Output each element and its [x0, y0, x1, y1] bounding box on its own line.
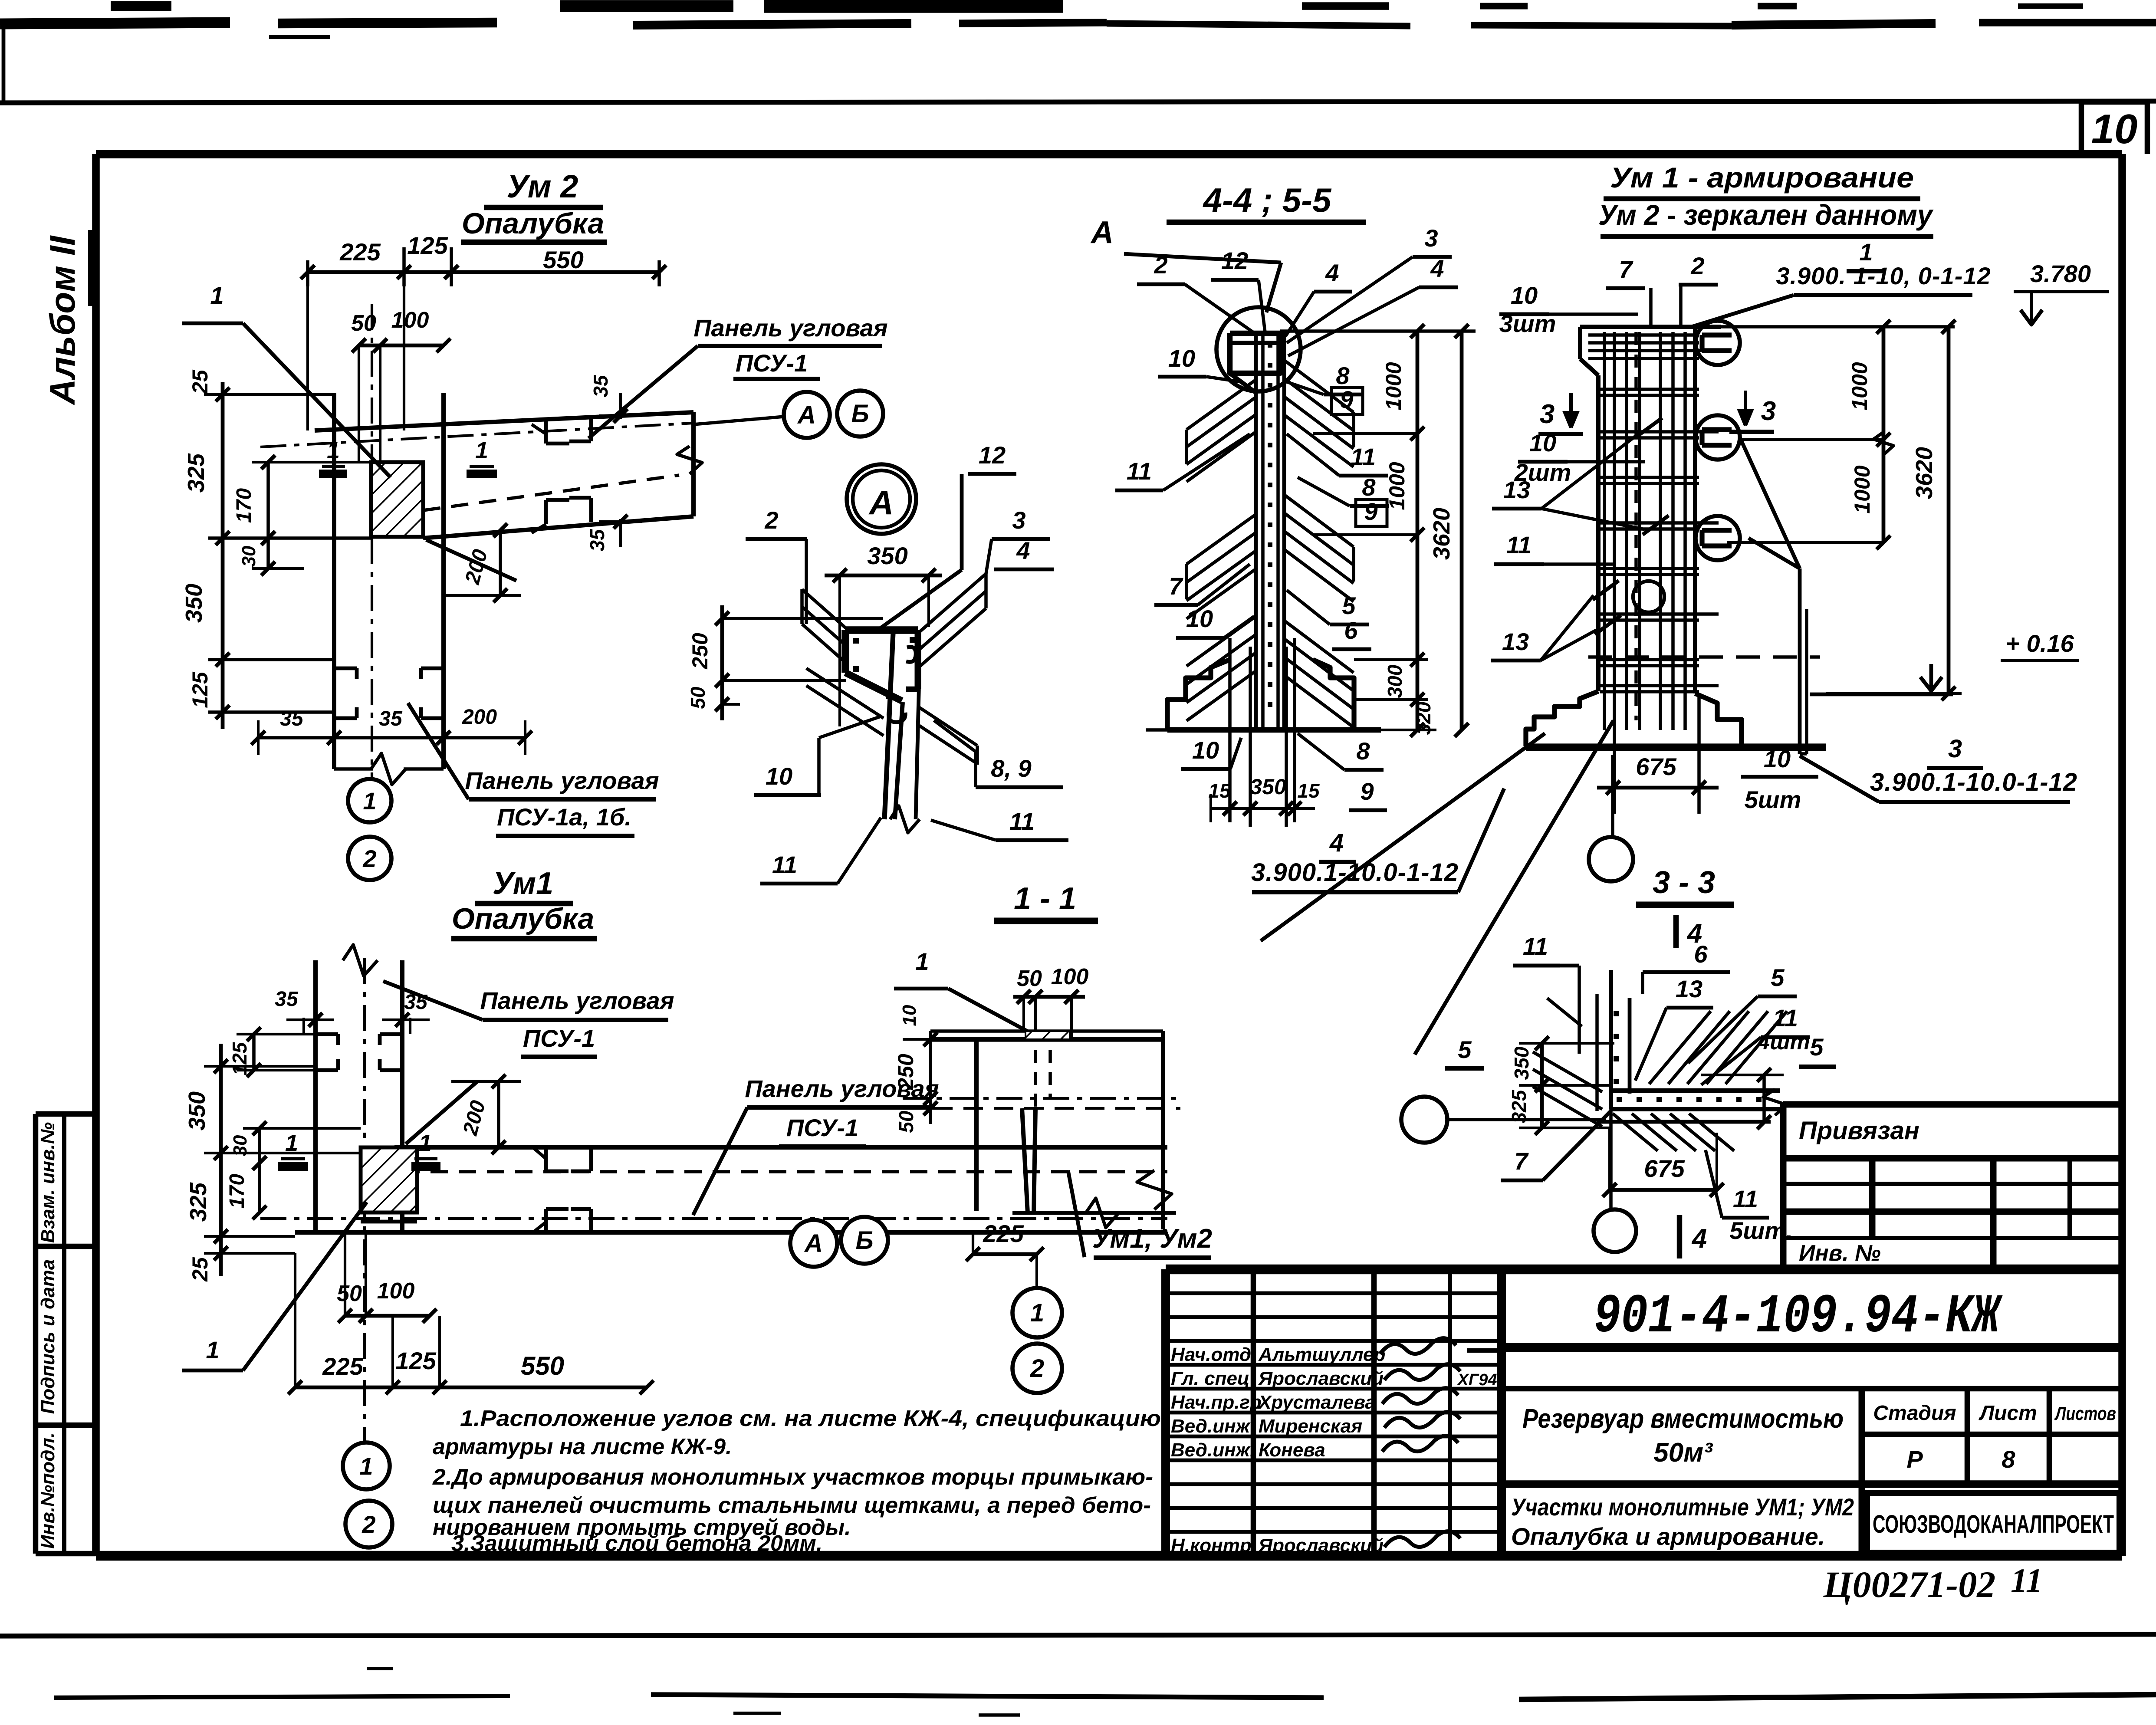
svg-text:Взам. инв.№: Взам. инв.№	[37, 1122, 59, 1243]
svg-text:Стадия: Стадия	[1873, 1402, 1956, 1425]
svg-text:11: 11	[2011, 1561, 2043, 1599]
svg-text:2: 2	[1690, 252, 1704, 279]
svg-text:550: 550	[543, 246, 583, 273]
svg-text:1: 1	[1030, 1299, 1044, 1327]
svg-text:901-4-109.94-КЖ: 901-4-109.94-КЖ	[1594, 1286, 2003, 1348]
svg-text:5: 5	[1458, 1036, 1472, 1063]
svg-text:А: А	[1090, 215, 1114, 250]
svg-text:50м³: 50м³	[1653, 1438, 1713, 1468]
svg-text:1.Расположение углов см. на: 1.Расположение углов см. на листе КЖ-4, …	[460, 1406, 1161, 1431]
svg-text:10: 10	[1511, 282, 1538, 309]
svg-text:Ярославский: Ярославский	[1258, 1535, 1384, 1556]
svg-text:50: 50	[687, 687, 709, 709]
svg-text:3620: 3620	[1911, 447, 1937, 499]
svg-text:1: 1	[363, 787, 376, 815]
svg-text:2: 2	[362, 1511, 375, 1538]
svg-text:50: 50	[351, 311, 376, 336]
svg-text:125: 125	[407, 232, 448, 259]
svg-text:10: 10	[1529, 429, 1556, 457]
svg-text:1: 1	[419, 1130, 432, 1156]
svg-text:3шт: 3шт	[1499, 310, 1556, 337]
svg-text:11: 11	[1523, 933, 1548, 960]
svg-text:ПСУ-1: ПСУ-1	[736, 349, 808, 377]
svg-text:Нач.пр.гр: Нач.пр.гр	[1171, 1392, 1262, 1413]
svg-text:Ум 2 - зеркален данному: Ум 2 - зеркален данному	[1598, 199, 1934, 231]
svg-text:50: 50	[895, 1111, 917, 1133]
svg-text:1000: 1000	[1381, 362, 1406, 410]
svg-text:Опалубка: Опалубка	[452, 902, 594, 935]
svg-text:7: 7	[1619, 256, 1633, 283]
svg-text:5шт: 5шт	[1745, 786, 1801, 813]
svg-text:250: 250	[688, 633, 712, 670]
svg-text:13: 13	[1676, 975, 1702, 1002]
svg-text:4: 4	[1325, 259, 1339, 286]
svg-text:2: 2	[764, 506, 778, 534]
svg-text:12: 12	[1221, 247, 1248, 274]
svg-text:13: 13	[1502, 628, 1529, 655]
svg-text:1: 1	[210, 282, 223, 309]
svg-text:Ум1: Ум1	[493, 866, 553, 901]
svg-text:35: 35	[275, 988, 299, 1011]
svg-text:3: 3	[1540, 399, 1555, 429]
svg-text:Ц00271-02: Ц00271-02	[1823, 1564, 1996, 1605]
svg-text:10: 10	[2091, 106, 2138, 152]
svg-text:1: 1	[206, 1336, 219, 1364]
svg-text:Панель угловая: Панель угловая	[693, 314, 887, 342]
svg-text:35: 35	[589, 375, 612, 398]
svg-text:Инв. №: Инв. №	[1799, 1241, 1881, 1266]
svg-text:2: 2	[1154, 251, 1167, 279]
svg-text:4-4 ; 5-5: 4-4 ; 5-5	[1203, 181, 1332, 219]
svg-text:5шт.: 5шт.	[1729, 1217, 1793, 1244]
svg-text:325: 325	[185, 1182, 211, 1222]
svg-text:50: 50	[337, 1281, 362, 1306]
svg-text:11: 11	[1127, 457, 1152, 485]
svg-text:225: 225	[339, 238, 381, 266]
svg-text:А: А	[804, 1229, 823, 1258]
svg-text:8, 9: 8, 9	[991, 755, 1031, 782]
svg-text:Ум1, Ум2: Ум1, Ум2	[1092, 1224, 1212, 1254]
svg-text:5: 5	[1771, 964, 1785, 991]
svg-text:Миренская: Миренская	[1259, 1416, 1362, 1437]
svg-text:10: 10	[899, 1005, 920, 1026]
svg-text:Альтшуллер: Альтшуллер	[1258, 1344, 1385, 1365]
svg-text:2: 2	[1030, 1354, 1044, 1383]
svg-text:3: 3	[1948, 735, 1962, 763]
svg-text:125: 125	[395, 1347, 436, 1374]
svg-text:8: 8	[1362, 473, 1376, 501]
svg-text:1: 1	[327, 437, 340, 463]
svg-text:3 - 3: 3 - 3	[1653, 865, 1715, 900]
svg-text:Н.контр.: Н.контр.	[1171, 1535, 1257, 1556]
svg-text:11: 11	[1351, 443, 1376, 470]
svg-text:170: 170	[233, 488, 256, 523]
svg-text:Б: Б	[851, 400, 869, 428]
svg-text:3.900. 1-10, 0-1-12: 3.900. 1-10, 0-1-12	[1776, 262, 1991, 289]
svg-text:Инв.№подл.: Инв.№подл.	[37, 1433, 59, 1549]
svg-text:11: 11	[1506, 531, 1532, 559]
svg-text:675: 675	[1644, 1155, 1685, 1182]
svg-text:3.900.1-10.0-1-12: 3.900.1-10.0-1-12	[1870, 768, 2077, 796]
svg-text:7: 7	[1169, 572, 1183, 600]
svg-text:1: 1	[359, 1452, 373, 1480]
svg-text:12: 12	[979, 441, 1006, 469]
svg-text:4: 4	[1016, 537, 1030, 564]
svg-text:350: 350	[184, 1091, 210, 1130]
svg-text:Привязан: Привязан	[1799, 1117, 1919, 1145]
svg-text:2: 2	[362, 845, 376, 872]
svg-text:675: 675	[1636, 753, 1676, 780]
svg-text:ПСУ-1: ПСУ-1	[523, 1025, 595, 1052]
svg-text:350: 350	[867, 542, 907, 569]
svg-text:Ум 1 - армирование: Ум 1 - армирование	[1610, 161, 1914, 194]
svg-text:30: 30	[238, 545, 260, 567]
svg-text:ПСУ-1а, 1б.: ПСУ-1а, 1б.	[497, 803, 631, 831]
svg-text:5: 5	[1810, 1033, 1824, 1061]
svg-text:Р: Р	[1906, 1446, 1923, 1473]
svg-text:10: 10	[1764, 745, 1791, 772]
svg-text:15: 15	[1297, 779, 1320, 802]
svg-text:1000: 1000	[1847, 362, 1872, 410]
svg-text:35: 35	[379, 707, 403, 730]
svg-text:Нач.отд: Нач.отд	[1171, 1344, 1251, 1365]
svg-text:10: 10	[1186, 605, 1213, 632]
svg-text:Панель угловая: Панель угловая	[465, 767, 659, 794]
svg-text:350: 350	[1250, 775, 1286, 799]
svg-text:Резервуар вместимостью: Резервуар вместимостью	[1522, 1404, 1844, 1434]
svg-text:4: 4	[1430, 255, 1444, 282]
svg-text:1: 1	[475, 437, 488, 463]
svg-text:550: 550	[521, 1351, 564, 1380]
svg-text:225: 225	[983, 1220, 1024, 1247]
svg-text:35: 35	[280, 707, 304, 730]
svg-text:13: 13	[1503, 476, 1530, 503]
svg-text:25: 25	[188, 369, 212, 394]
svg-text:100: 100	[1051, 964, 1089, 989]
svg-text:3: 3	[1761, 396, 1776, 426]
svg-text:100: 100	[377, 1278, 415, 1304]
svg-text:СОЮЗВОДОКАНАЛПРОЕКТ: СОЮЗВОДОКАНАЛПРОЕКТ	[1873, 1510, 2114, 1538]
svg-text:6: 6	[1344, 617, 1358, 644]
svg-text:1: 1	[1859, 238, 1873, 266]
svg-text:100: 100	[391, 308, 429, 333]
svg-text:А: А	[797, 401, 816, 429]
svg-text:11: 11	[1009, 808, 1035, 835]
svg-text:5: 5	[1342, 592, 1356, 619]
svg-text:4: 4	[1691, 1224, 1707, 1254]
svg-text:10: 10	[766, 762, 792, 790]
svg-text:125: 125	[188, 671, 212, 708]
svg-text:Опалубка и армирование.: Опалубка и армирование.	[1511, 1523, 1825, 1550]
svg-text:10: 10	[1192, 736, 1219, 764]
svg-text:Вед.инж.: Вед.инж.	[1171, 1439, 1255, 1461]
svg-text:11: 11	[1733, 1185, 1758, 1212]
svg-text:арматуры на листе КЖ-9.: арматуры на листе КЖ-9.	[433, 1434, 732, 1459]
svg-text:3620: 3620	[1429, 508, 1455, 560]
svg-text:ХГ94: ХГ94	[1457, 1371, 1497, 1389]
svg-text:Альбом II: Альбом II	[43, 235, 82, 405]
svg-text:4шт: 4шт	[1757, 1029, 1810, 1055]
svg-text:3.Защитный слой бетона 20мм: 3.Защитный слой бетона 20мм.	[451, 1531, 822, 1556]
svg-text:Гл. спец: Гл. спец	[1171, 1368, 1249, 1389]
svg-text:9: 9	[1364, 498, 1377, 525]
svg-text:8: 8	[2002, 1446, 2015, 1473]
svg-text:8: 8	[1356, 737, 1370, 765]
svg-text:1: 1	[915, 948, 929, 975]
svg-text:35: 35	[586, 529, 608, 552]
svg-text:Хрусталева: Хрусталева	[1257, 1392, 1376, 1413]
svg-text:Лист: Лист	[1979, 1402, 2037, 1425]
svg-text:300: 300	[1384, 664, 1406, 698]
svg-text:7: 7	[1514, 1147, 1529, 1175]
svg-text:3: 3	[1012, 506, 1025, 534]
svg-text:9: 9	[1340, 386, 1353, 413]
svg-text:+ 0.16: + 0.16	[2005, 630, 2074, 657]
svg-text:350: 350	[181, 584, 207, 623]
svg-text:Участки монолитные УМ1; УМ2: Участки монолитные УМ1; УМ2	[1511, 1493, 1854, 1521]
svg-text:Ум 2: Ум 2	[507, 168, 578, 204]
svg-text:Подпись и дата: Подпись и дата	[37, 1259, 59, 1414]
svg-text:Конева: Конева	[1259, 1439, 1325, 1461]
svg-text:25: 25	[188, 1257, 212, 1282]
svg-text:200: 200	[462, 706, 497, 729]
svg-text:30: 30	[230, 1135, 251, 1156]
svg-text:11: 11	[1773, 1004, 1798, 1032]
svg-text:Вед.инж: Вед.инж	[1171, 1416, 1251, 1437]
svg-text:11: 11	[772, 851, 797, 878]
svg-text:Ярославский: Ярославский	[1258, 1368, 1384, 1389]
svg-text:170: 170	[226, 1174, 249, 1209]
svg-text:325: 325	[183, 453, 209, 493]
svg-text:3: 3	[1424, 224, 1438, 252]
svg-text:ПСУ-1: ПСУ-1	[786, 1114, 858, 1141]
svg-text:Б: Б	[855, 1226, 873, 1255]
svg-text:9: 9	[1360, 778, 1374, 805]
svg-text:225: 225	[322, 1353, 363, 1380]
svg-text:4: 4	[1329, 829, 1344, 857]
svg-text:350: 350	[1510, 1046, 1533, 1080]
svg-text:Листов: Листов	[2054, 1403, 2116, 1424]
svg-text:1000: 1000	[1850, 465, 1874, 513]
svg-text:250: 250	[894, 1054, 918, 1091]
svg-text:А: А	[868, 483, 894, 522]
svg-text:10: 10	[1168, 345, 1195, 372]
svg-text:Панель угловая: Панель угловая	[480, 987, 674, 1014]
svg-text:щих панелей очистить стальн: щих панелей очистить стальными щетками, …	[433, 1493, 1151, 1518]
svg-text:8: 8	[1336, 362, 1350, 389]
svg-text:3.780: 3.780	[2030, 260, 2091, 287]
svg-text:Опалубка: Опалубка	[462, 207, 604, 240]
svg-text:50: 50	[1017, 966, 1042, 991]
svg-text:2.До армирования монолитных: 2.До армирования монолитных участков тор…	[432, 1465, 1153, 1490]
svg-text:1 - 1: 1 - 1	[1014, 881, 1076, 916]
svg-text:6: 6	[1694, 940, 1708, 968]
